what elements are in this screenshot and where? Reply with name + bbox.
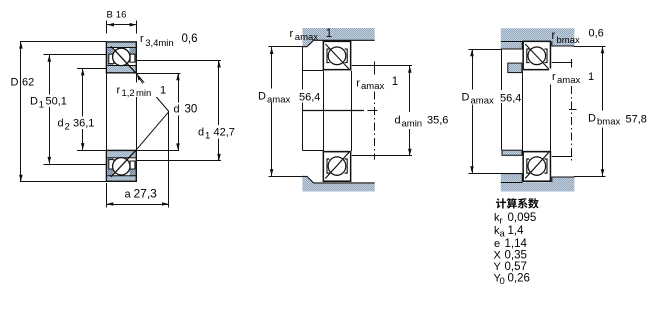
bore lines middle figure (324, 71, 352, 151)
svg-text:0: 0 (500, 276, 505, 287)
dimension a 27,3 (106, 112, 168, 208)
label r_amax 1 right figure (549, 69, 595, 87)
svg-text:57,8: 57,8 (626, 114, 647, 126)
svg-text:0,35: 0,35 (505, 250, 527, 262)
svg-text:e: e (494, 238, 500, 250)
housing slab top right (501, 28, 575, 49)
svg-text:a: a (125, 189, 132, 201)
bottom ring section left figure (mirrored) (106, 150, 136, 182)
svg-text:d: d (58, 118, 64, 130)
svg-text:0,095: 0,095 (508, 212, 537, 224)
svg-text:D: D (588, 113, 596, 125)
svg-text:50,1: 50,1 (46, 96, 67, 108)
dimension D1 50,1 (30, 55, 107, 165)
housing slab bottom middle (302, 176, 374, 191)
svg-text:D: D (258, 91, 266, 103)
svg-text:min: min (136, 88, 151, 99)
svg-text:B: B (107, 10, 113, 21)
svg-text:r: r (356, 78, 360, 90)
svg-text:r: r (140, 33, 144, 45)
svg-text:42,7: 42,7 (214, 127, 235, 139)
svg-text:1: 1 (160, 85, 166, 97)
dimension Damax 56,4 right figure (461, 49, 522, 173)
small abutment block bottom-left right figure (502, 150, 522, 155)
label r1,2min 1 with leader arrow (115, 76, 167, 99)
svg-text:Y: Y (494, 261, 502, 273)
bearing box bottom middle (323, 152, 350, 182)
svg-text:0,6: 0,6 (589, 28, 604, 40)
svg-text:d: d (174, 103, 180, 115)
svg-text:amax: amax (361, 81, 384, 92)
contact line extension top to pressure centre (136, 73, 169, 111)
housing slab bottom right (501, 174, 575, 192)
label r_amax 1 top middle (290, 28, 333, 43)
dimension Dbmax 57,8 right figure (574, 46, 647, 176)
left abutment outline middle (303, 47, 378, 151)
shaft shoulder block right side right figure (552, 59, 573, 161)
bore lines right figure (523, 71, 551, 151)
svg-text:62: 62 (22, 77, 34, 89)
svg-text:bmax: bmax (597, 117, 620, 128)
svg-text:3,4min: 3,4min (145, 38, 174, 49)
svg-text:1: 1 (39, 100, 44, 111)
svg-text:amax: amax (295, 32, 318, 43)
svg-text:0,57: 0,57 (505, 261, 527, 273)
svg-text:r: r (552, 30, 556, 42)
bore lines left figure (107, 73, 137, 151)
svg-text:1: 1 (205, 131, 210, 142)
svg-text:bmax: bmax (557, 35, 580, 46)
bearing box top middle (323, 41, 350, 69)
dimension d 30 (bore) (137, 73, 199, 150)
dimension d_amin 35,6 middle (352, 66, 449, 156)
svg-text:1: 1 (326, 28, 332, 40)
svg-text:amax: amax (471, 96, 494, 107)
svg-text:0,6: 0,6 (182, 33, 198, 45)
svg-text:35,6: 35,6 (427, 115, 448, 127)
svg-text:amin: amin (402, 119, 423, 130)
svg-text:r: r (552, 71, 556, 83)
dimension d1 42,7 (137, 61, 236, 161)
svg-text:X: X (494, 250, 502, 262)
calculation factors title 计算系数 (as paths) (496, 198, 539, 208)
svg-text:0,26: 0,26 (508, 273, 530, 285)
label r3,4min 0,6 (140, 33, 198, 49)
svg-text:r: r (117, 85, 121, 97)
bearing box top right figure (523, 41, 550, 69)
svg-text:D: D (30, 96, 38, 108)
housing slab top middle (302, 28, 374, 47)
bearing box bottom right figure (523, 152, 550, 182)
svg-text:1: 1 (588, 71, 594, 83)
svg-text:r: r (500, 216, 503, 227)
svg-text:2: 2 (65, 122, 70, 133)
svg-text:1,14: 1,14 (505, 238, 528, 250)
dimension Damax 56,4 middle (257, 47, 321, 177)
contact line extension bottom to pressure centre (136, 112, 169, 150)
svg-text:56,4: 56,4 (500, 93, 521, 105)
dimension B 16 (107, 10, 137, 34)
dimension d2 36,1 (57, 69, 106, 151)
calculation factors text block (494, 212, 537, 287)
svg-text:1,2: 1,2 (122, 88, 135, 99)
label r_bmax 0,6 right figure (552, 28, 604, 47)
svg-text:1: 1 (392, 76, 398, 88)
svg-text:36,1: 36,1 (73, 118, 94, 130)
svg-text:56,4: 56,4 (299, 92, 320, 104)
svg-text:amax: amax (557, 75, 580, 86)
top ring section left figure (106, 42, 136, 74)
svg-text:16: 16 (116, 10, 127, 21)
small abutment block top-left right figure (508, 63, 522, 73)
svg-text:30: 30 (185, 103, 198, 115)
svg-text:d: d (198, 127, 204, 139)
svg-text:r: r (290, 28, 294, 40)
svg-text:D: D (462, 92, 470, 104)
svg-text:27,3: 27,3 (134, 187, 158, 201)
svg-text:d: d (395, 115, 401, 127)
dimension D 62 (11, 42, 107, 182)
shaft shoulder block edge right middle (374, 62, 376, 75)
svg-text:D: D (11, 77, 19, 89)
centreline dash right figure (569, 109, 577, 111)
svg-text:amax: amax (267, 95, 290, 106)
svg-text:1,4: 1,4 (508, 225, 525, 237)
left shoulder face line right figure (501, 49, 503, 150)
label r_amax 1 mid middle (353, 75, 399, 92)
